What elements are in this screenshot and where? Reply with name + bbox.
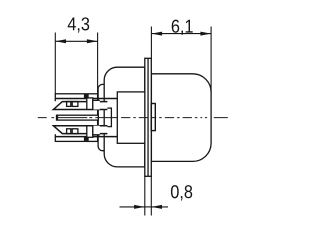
label 0,8 — [171, 185, 179, 198]
upper leg post — [87, 98, 93, 110]
inner sleeve top line — [55, 98, 117, 100]
arrow 6,1 right — [200, 32, 211, 36]
retaining square upper — [84, 94, 89, 98]
plate mid line — [147, 58, 149, 176]
bushing right of plate — [151, 104, 155, 131]
dim 6,1 extension left — [150, 27, 152, 59]
arrow 4,3 right — [87, 39, 98, 43]
lower leg notch 2 — [72, 129, 78, 134]
arrow 0,8 right — [151, 205, 162, 209]
dim 0,8 extension left — [144, 176, 146, 215]
mounting plate — [145, 58, 152, 176]
dim 6,1 line — [151, 33, 211, 35]
lower leg post — [87, 126, 93, 138]
dim 0,8 line middle — [145, 206, 152, 208]
lower leg step rect — [93, 126, 100, 135]
sleeve line lower inside cylinder — [55, 136, 97, 138]
dim 4,3 extension left — [54, 33, 56, 94]
overmold (mid rounded housing) — [104, 67, 145, 167]
pin tip — [56, 115, 58, 121]
neck step rect N1 — [98, 108, 111, 127]
upper leg — [53, 102, 107, 110]
centerline — [38, 117, 228, 119]
dim 0,8 line right — [151, 206, 168, 208]
dimension graphics — [55, 27, 211, 216]
upper leg step rect — [93, 100, 100, 109]
arrow 0,8 left — [134, 205, 145, 209]
label 6,1 — [172, 20, 180, 33]
upper leg notch 2 — [72, 102, 78, 107]
sleeve line upper inside cylinder — [55, 98, 97, 100]
connector body (right rounded housing) — [151, 74, 211, 162]
center pin — [57, 115, 99, 120]
inner sleeve bottom line — [55, 136, 117, 138]
arrow 4,3 left — [55, 39, 66, 43]
front opening (erase cylinder edge across legs/pin) — [50, 101, 56, 134]
dim 4,3 extension right — [97, 33, 99, 94]
arrow 6,1 left — [151, 32, 162, 36]
dim 0,8 extension right — [150, 176, 152, 215]
left cylinder shell — [55, 94, 97, 142]
center block — [117, 92, 145, 143]
label 4,3 — [68, 18, 76, 31]
upper leg outline — [53, 102, 107, 110]
lower leg notch 1 — [67, 129, 71, 134]
dim 0,8 line left — [120, 206, 145, 208]
upper leg notch 1 — [67, 102, 71, 107]
dim 4,3 line — [55, 40, 97, 42]
bell (small rounded flange behind overmold) — [98, 84, 104, 150]
dim 6,1 extension right — [210, 27, 212, 93]
lower leg outline — [53, 126, 107, 134]
lower leg — [53, 126, 107, 134]
retaining square lower — [84, 137, 89, 141]
